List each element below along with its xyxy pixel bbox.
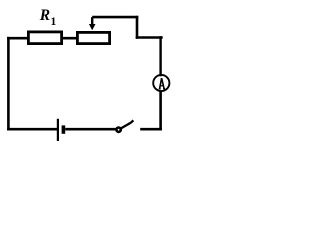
ammeter label A [159, 78, 166, 89]
rheostat R2 box [77, 32, 109, 43]
svg-text:1: 1 [51, 16, 57, 28]
wire: right vertical lower (corner to ammeter) [159, 92, 162, 131]
battery long plate (positive) [57, 119, 59, 141]
wire: bottom-left to battery [7, 128, 57, 131]
svg-text:R: R [39, 7, 50, 24]
wire: step vertical [136, 16, 139, 39]
wire: top-left horizontal (resistor to corner) [7, 37, 28, 40]
ammeter A [153, 75, 169, 91]
wire: right vertical upper (ammeter to step corner) [159, 36, 161, 76]
wire: left vertical [7, 37, 10, 131]
wire: step horizontal [136, 36, 163, 39]
wire: top horizontal (corner to wiper) [92, 16, 138, 19]
label R1 [39, 7, 57, 28]
wire: resistor to rheostat [62, 37, 78, 40]
battery short plate (negative) [62, 125, 66, 133]
resistor R1 box [28, 32, 61, 44]
wire: switch to bottom-right corner [140, 128, 162, 131]
switch S pivot [116, 128, 120, 132]
rheostat wiper arrow stem [91, 17, 93, 25]
wire: battery to switch [65, 128, 116, 131]
switch S lever [121, 120, 133, 128]
rheostat wiper arrowhead [89, 24, 96, 30]
